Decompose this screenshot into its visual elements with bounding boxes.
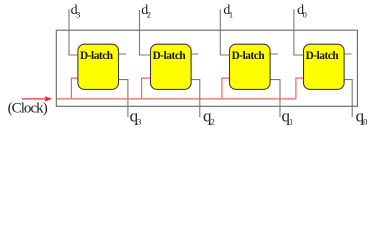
svg-text:D-latch: D-latch [232,50,266,62]
svg-text:d2: d2 [141,3,151,20]
svg-text:(Clock): (Clock) [8,101,48,117]
svg-text:q0: q0 [356,107,368,127]
svg-text:d1: d1 [223,3,233,20]
svg-text:D-latch: D-latch [153,50,187,62]
svg-text:d0: d0 [297,3,307,20]
svg-text:D-latch: D-latch [80,50,114,62]
svg-text:d3: d3 [71,3,81,20]
svg-text:q3: q3 [130,107,142,127]
svg-text:q2: q2 [203,107,215,127]
svg-text:D-latch: D-latch [306,50,340,62]
svg-text:q1: q1 [282,107,294,127]
